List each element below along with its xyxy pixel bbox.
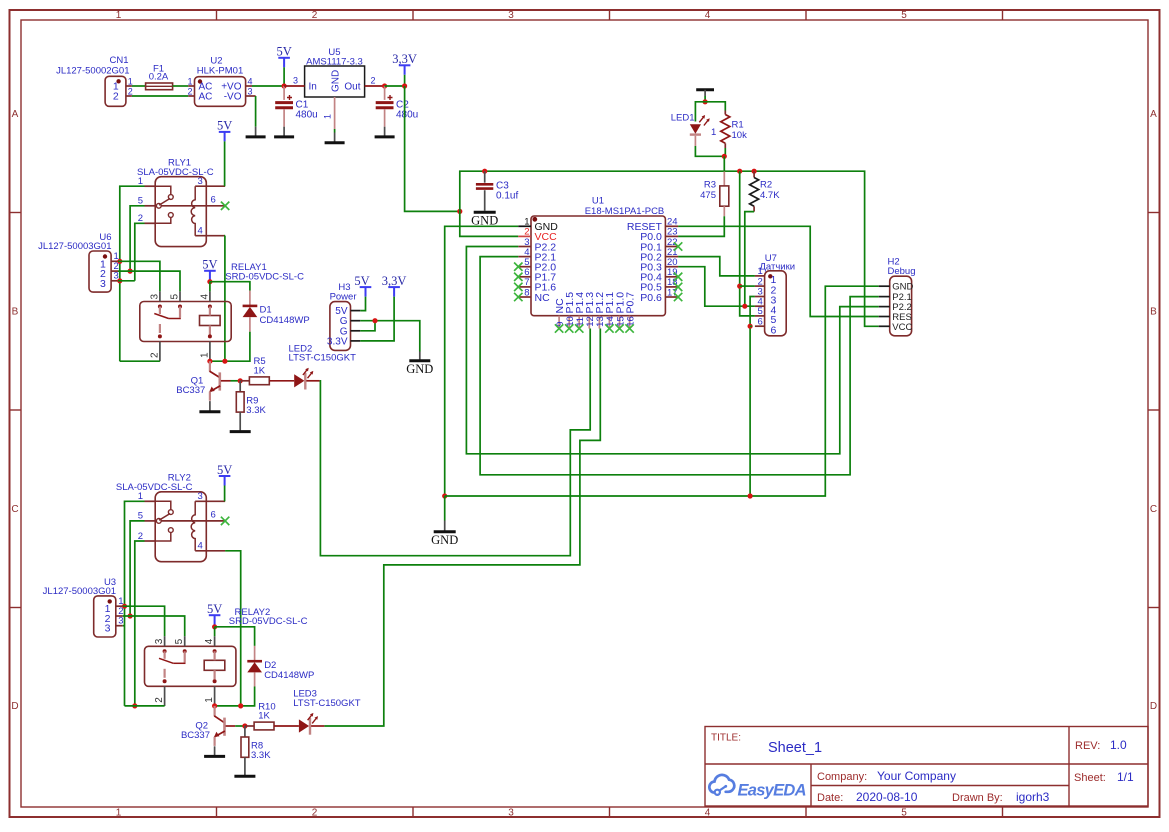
- CN1 pin2 stub: [126, 95, 132, 97]
- svg-text:E18-MS1PA1-PCB: E18-MS1PA1-PCB: [585, 206, 665, 217]
- H2 pin3 stub: [879, 306, 890, 308]
- wire 5V to pin3: [224, 141, 226, 186]
- U2 pin2 stub: [188, 95, 194, 97]
- wire GND to U7 pin6: [749, 326, 751, 496]
- resistor R2 4.7K (zigzag black): [750, 171, 781, 211]
- CN1 pin1 stub: [126, 85, 132, 87]
- capacitor C3 0.1uf: [476, 171, 519, 210]
- ground: [230, 430, 251, 431]
- svg-text:3.3K: 3.3K: [246, 405, 266, 416]
- svg-text:2: 2: [371, 76, 376, 86]
- wire U7.3-U7.6: [750, 297, 755, 327]
- wire 5V stem: [209, 280, 211, 281]
- junction pin4 wire: [238, 703, 243, 708]
- wire 3V3 rail: [460, 171, 879, 326]
- junction coil-/collector: [212, 703, 217, 708]
- wire pin2 net: [135, 223, 145, 280]
- RELAY1 pin1 lead: [209, 342, 211, 362]
- C3 bottom lead: [484, 190, 486, 210]
- pin4 line: [195, 550, 225, 552]
- junction U6.1: [117, 259, 122, 264]
- svg-text:2: 2: [149, 352, 160, 358]
- 5V power flag: [354, 274, 371, 297]
- wire U5 gnd: [334, 129, 336, 133]
- wire CN1-U2 row2: [132, 95, 188, 97]
- svg-text:10k: 10k: [732, 130, 748, 141]
- lead: [249, 317, 251, 332]
- RELAY1 pin2 lead: [159, 342, 161, 362]
- U1 pin6 stub: [518, 276, 531, 278]
- wire pin5 net: [130, 521, 144, 616]
- svg-text:0.1uf: 0.1uf: [496, 191, 518, 202]
- lead: [245, 725, 254, 727]
- svg-text:3: 3: [105, 623, 111, 635]
- wire AC vertical: [125, 501, 145, 706]
- svg-text:igorh3: igorh3: [1016, 790, 1050, 804]
- svg-text:3,3V: 3,3V: [382, 274, 407, 288]
- wire GND to H2: [445, 286, 879, 496]
- C2 top lead: [384, 86, 386, 100]
- U1 pin9 stub: [558, 316, 560, 329]
- fuse F1 0.2A: [146, 64, 173, 90]
- svg-text:Date:: Date:: [817, 792, 843, 804]
- junction 3V3 branch: [457, 209, 462, 214]
- wire H3-3V3: [360, 297, 394, 341]
- wire emitter: [214, 746, 216, 755]
- svg-text:3: 3: [293, 76, 298, 86]
- wire AC vertical: [120, 186, 145, 361]
- relay RLY2 SLA-05VDC-SL-C: [116, 473, 229, 562]
- wire 3V3-U7.5: [740, 171, 755, 316]
- svg-text:6: 6: [771, 324, 777, 336]
- wire 5V stem: [283, 67, 285, 86]
- svg-text:6: 6: [211, 510, 216, 521]
- pin5 stub: [145, 205, 156, 207]
- pin5 stub: [145, 520, 156, 522]
- U1 pin23 stub: [665, 235, 678, 237]
- U3 pin3 stub: [116, 625, 123, 627]
- no-connect X U1 right: [674, 242, 682, 250]
- svg-text:CD4148WP: CD4148WP: [260, 315, 310, 326]
- LED LED1: [671, 113, 717, 147]
- wire relay pin2: [125, 705, 165, 707]
- svg-text:2: 2: [128, 86, 133, 96]
- lead: [240, 380, 249, 382]
- ground: [274, 127, 294, 137]
- wire to pin4: [209, 282, 211, 292]
- cathode lead: [306, 380, 319, 382]
- svg-text:3: 3: [508, 808, 514, 819]
- ground: [471, 210, 498, 227]
- lead: [254, 672, 256, 686]
- no-connect X RLY2.6: [221, 517, 229, 525]
- svg-text:1: 1: [128, 76, 133, 86]
- H3 pin1 stub: [351, 310, 361, 312]
- svg-text:-VO: -VO: [224, 92, 242, 103]
- emitter lead: [214, 737, 216, 746]
- R3 top lead: [723, 172, 725, 186]
- resistor R3 475 (box): [700, 172, 729, 217]
- wire LED1 top: [695, 102, 705, 122]
- svg-text:4: 4: [204, 638, 215, 644]
- ground: [431, 521, 458, 548]
- wire row3: [118, 280, 135, 282]
- wire to diode: [210, 282, 250, 291]
- U2 pin3 stub: [246, 95, 256, 97]
- U1 pin13 stub: [598, 316, 600, 329]
- lead: [244, 757, 246, 775]
- svg-text:8: 8: [524, 287, 529, 298]
- resistor R1 10k (zigzag): [721, 111, 747, 149]
- svg-text:B: B: [12, 307, 19, 318]
- svg-text:CD4148WP: CD4148WP: [264, 670, 314, 681]
- svg-text:Power: Power: [330, 291, 357, 302]
- U5 pin3 stub: [284, 85, 305, 87]
- RELAY2 pin3 lead: [164, 636, 166, 646]
- U1 pin21 stub: [665, 256, 678, 258]
- no-connect X U1 bottom: [625, 324, 633, 332]
- svg-text:3: 3: [149, 294, 160, 300]
- svg-text:2: 2: [113, 90, 119, 102]
- resistor R9 3.3K: [236, 381, 266, 431]
- svg-text:VCC: VCC: [892, 322, 912, 333]
- H3 pin2 stub: [351, 320, 361, 322]
- svg-text:5V: 5V: [202, 258, 217, 272]
- wire C2-3V3: [385, 85, 405, 87]
- svg-text:1: 1: [323, 114, 333, 119]
- svg-text:TITLE:: TITLE:: [711, 733, 741, 744]
- ground flipped above LED1: [696, 90, 714, 96]
- wire to R1: [705, 102, 725, 111]
- svg-text:2: 2: [758, 276, 763, 287]
- svg-text:4: 4: [705, 808, 711, 819]
- U1 pin14 stub: [608, 316, 610, 329]
- svg-text:4.7K: 4.7K: [760, 190, 780, 201]
- ground: [246, 127, 266, 137]
- U6 pin3 stub: [111, 280, 118, 282]
- R2 top lead: [753, 171, 755, 177]
- svg-text:3: 3: [198, 176, 203, 187]
- diode D2 CD4148WP: [247, 646, 314, 687]
- H3 pin3 stub: [351, 330, 361, 332]
- pin4 line: [195, 235, 225, 237]
- U1 pin24 stub: [665, 225, 678, 227]
- junction U7.4/R2: [742, 304, 747, 309]
- U1 pin15 stub: [619, 316, 621, 329]
- wire F1-U2: [173, 85, 189, 87]
- svg-text:Company:: Company:: [817, 771, 867, 783]
- collector lead: [209, 361, 211, 371]
- no-connect X U1 bottom: [605, 324, 613, 332]
- svg-text:5V: 5V: [207, 602, 222, 616]
- relay RELAY1 SRD-05VDC-SL-C: [140, 262, 304, 361]
- U1 pin19 stub: [665, 276, 678, 278]
- junction U3.2: [128, 613, 133, 618]
- junction base/R: [242, 723, 247, 728]
- svg-text:GND: GND: [431, 533, 458, 547]
- svg-text:1: 1: [187, 76, 192, 86]
- junction LED1/R1 top: [703, 99, 708, 104]
- ground: [199, 411, 220, 412]
- wire row3 short: [123, 625, 125, 627]
- H2 pin1 stub: [879, 285, 890, 287]
- wire pin2 net down: [135, 541, 145, 706]
- junction GND/U7: [748, 493, 753, 498]
- wire LED1 bottom: [695, 146, 724, 156]
- svg-text:1.0: 1.0: [1110, 738, 1127, 752]
- svg-text:P0.7: P0.7: [624, 292, 636, 314]
- no-connect X U1 right: [674, 293, 682, 301]
- svg-text:1K: 1K: [258, 711, 270, 722]
- U2 pin4 stub: [246, 85, 252, 87]
- wire base: [231, 380, 241, 382]
- wire H3 G2: [360, 321, 375, 331]
- pin3 line: [195, 500, 225, 502]
- U1 pin12 stub: [588, 316, 590, 329]
- pin6 line: [161, 520, 225, 522]
- wire U7.2 stub link: [740, 285, 755, 287]
- svg-text:5: 5: [138, 511, 143, 522]
- pin1 stub: [145, 185, 156, 187]
- svg-text:4: 4: [199, 294, 210, 300]
- no-connect X U1 bottom: [555, 324, 563, 332]
- svg-text:3: 3: [508, 10, 514, 21]
- svg-text:5V: 5V: [354, 274, 369, 288]
- svg-text:5V: 5V: [217, 463, 232, 477]
- AC-DC module U2 HLK-PM01: [187, 56, 255, 107]
- H3 pin4 stub: [351, 340, 361, 342]
- lead: [249, 291, 251, 306]
- U5 pin2 stub: [365, 85, 385, 87]
- wire H3-5V: [360, 297, 365, 311]
- svg-text:SRD-05VDC-SL-C: SRD-05VDC-SL-C: [229, 616, 308, 627]
- RELAY1 pin4 lead: [209, 291, 211, 301]
- svg-text:0.2A: 0.2A: [149, 71, 169, 82]
- svg-text:1: 1: [116, 808, 122, 819]
- lead: [244, 726, 246, 737]
- wire to R3: [723, 156, 725, 171]
- U6 pin1 stub: [111, 260, 118, 262]
- svg-text:JL127-50003G01: JL127-50003G01: [43, 586, 116, 597]
- U1 pin10 stub: [568, 316, 570, 329]
- svg-text:1: 1: [711, 127, 716, 138]
- title block: [705, 727, 1148, 807]
- pin2 stub: [145, 222, 156, 224]
- no-connect X U1 left: [514, 263, 522, 271]
- junction 5V/C1/U5-In: [282, 83, 287, 88]
- U7 pin2 stub: [755, 285, 765, 287]
- svg-text:HLK-PM01: HLK-PM01: [197, 66, 243, 77]
- wire pin4 down: [224, 236, 226, 362]
- wire P2.2 net: [466, 247, 878, 454]
- RELAY2 pin4 lead: [214, 636, 216, 646]
- wire row1: [123, 606, 165, 636]
- svg-text:2: 2: [312, 10, 318, 21]
- wire P0.2-U7.1: [678, 257, 755, 276]
- svg-text:GND: GND: [406, 362, 433, 376]
- svg-text:4: 4: [705, 10, 711, 21]
- R2 bottom lead: [753, 206, 755, 211]
- svg-text:D: D: [11, 701, 18, 712]
- junction U3.1: [122, 604, 127, 609]
- svg-text:Debug: Debug: [888, 266, 916, 277]
- RELAY1 pin3 lead: [159, 291, 161, 301]
- svg-text:1: 1: [204, 697, 215, 703]
- ground: [375, 127, 395, 137]
- U1 pin20 stub: [665, 266, 678, 268]
- relay RELAY2 SRD-05VDC-SL-C: [145, 607, 308, 706]
- svg-text:R1: R1: [732, 120, 744, 131]
- svg-text:SRD-05VDC-SL-C: SRD-05VDC-SL-C: [225, 271, 304, 282]
- wire CN1-F1: [132, 85, 146, 87]
- 5V power flag: [217, 463, 232, 486]
- wire to pin4: [214, 627, 216, 636]
- svg-text:5V: 5V: [217, 119, 232, 133]
- U5 pin1 lead: [334, 97, 336, 129]
- wire diode down: [210, 332, 250, 361]
- svg-text:In: In: [309, 82, 317, 93]
- svg-text:5: 5: [174, 638, 185, 644]
- lead: [274, 725, 299, 727]
- H2 pin5 stub: [879, 325, 890, 327]
- svg-text:475: 475: [700, 190, 716, 201]
- wire chain B: [324, 329, 600, 727]
- svg-text:Out: Out: [344, 82, 360, 93]
- svg-text:3: 3: [198, 491, 203, 502]
- ground: [234, 775, 255, 776]
- R1 lead: [724, 111, 726, 115]
- lead: [254, 646, 256, 661]
- svg-text:GND: GND: [892, 282, 913, 293]
- svg-text:Датчики: Датчики: [760, 262, 796, 273]
- U1 pin11 stub: [578, 316, 580, 329]
- svg-text:R2: R2: [760, 180, 772, 191]
- wire U7.6 link: [750, 325, 752, 327]
- svg-text:EasyEDA: EasyEDA: [738, 782, 807, 800]
- svg-text:1K: 1K: [254, 366, 266, 377]
- svg-text:5V: 5V: [276, 45, 291, 59]
- junction base/R: [238, 378, 243, 383]
- wire 3V3 vertical: [405, 86, 460, 211]
- svg-text:SLA-05VDC-SL-C: SLA-05VDC-SL-C: [116, 482, 193, 493]
- RELAY2 pin1 lead: [214, 686, 216, 706]
- junction rail/R2: [752, 169, 757, 174]
- U7 pin6 stub: [755, 325, 765, 327]
- wire R2 down: [745, 212, 754, 307]
- svg-text:GND: GND: [331, 70, 342, 92]
- H2 pin4 stub: [879, 316, 890, 318]
- regulator U5 AMS1117-3.3: [284, 47, 385, 129]
- junction 5V/RELAY1.4: [207, 279, 212, 284]
- wire 5V to pin3: [224, 486, 226, 502]
- junction U6.3: [117, 278, 122, 283]
- LED LED3 LTST-C150GKT: [293, 689, 361, 735]
- svg-text:NC: NC: [535, 292, 551, 304]
- RELAY2 pin5 lead: [184, 636, 186, 646]
- svg-text:3: 3: [118, 616, 123, 627]
- U1 pin7 stub: [518, 286, 531, 288]
- junction 5V/RELAY2.4: [212, 624, 217, 629]
- no-connect X U1 left: [514, 293, 522, 301]
- lead: [239, 381, 241, 392]
- U1 pin16 stub: [629, 316, 631, 329]
- svg-text:2: 2: [154, 697, 165, 703]
- LED1 cathode lead: [694, 136, 696, 146]
- svg-text:3.3V: 3.3V: [327, 336, 348, 347]
- U7 pin5 stub: [755, 315, 765, 317]
- wire diode down: [215, 687, 255, 706]
- U3 pin2 stub: [116, 615, 123, 617]
- C1 bottom lead: [283, 109, 285, 126]
- junction U7.2: [737, 284, 742, 289]
- U7 pin1 stub: [755, 275, 765, 277]
- U1 pin5 stub: [518, 266, 531, 268]
- U1 pin8 stub: [518, 296, 531, 298]
- svg-text:A: A: [1150, 109, 1157, 120]
- svg-text:JL127-50003G01: JL127-50003G01: [38, 241, 111, 252]
- junction coil-/collector: [207, 359, 212, 364]
- lead: [269, 380, 294, 382]
- svg-text:2: 2: [187, 86, 192, 96]
- resistor R8 3.3K: [241, 726, 271, 775]
- pin2 stub: [145, 540, 156, 542]
- wire P2.1 net: [480, 257, 879, 475]
- svg-text:A: A: [12, 109, 19, 120]
- cathode lead: [311, 725, 324, 727]
- wire RESET: [678, 226, 879, 316]
- no-connect X U1 left: [514, 273, 522, 281]
- base lead: [221, 380, 231, 382]
- svg-text:1: 1: [199, 352, 210, 358]
- svg-text:Drawn By:: Drawn By:: [952, 792, 1003, 804]
- svg-text:P0.6: P0.6: [640, 292, 662, 304]
- no-connect X U1 left: [514, 283, 522, 291]
- connector H3 Power: [327, 282, 360, 350]
- svg-text:D: D: [1150, 701, 1157, 712]
- wire 3V3 stem: [404, 75, 406, 86]
- svg-text:480u: 480u: [296, 110, 318, 121]
- svg-text:C: C: [11, 504, 18, 515]
- svg-text:2: 2: [312, 808, 318, 819]
- svg-text:3,3V: 3,3V: [392, 52, 417, 66]
- svg-text:R3: R3: [704, 180, 716, 191]
- svg-text:3: 3: [100, 278, 106, 290]
- svg-text:Sheet_1: Sheet_1: [768, 740, 822, 756]
- svg-text:AMS1117-3.3: AMS1117-3.3: [306, 57, 363, 68]
- svg-text:6: 6: [758, 316, 763, 327]
- wire pin5 net: [130, 206, 144, 271]
- base lead: [226, 725, 236, 727]
- svg-text:REV:: REV:: [1075, 740, 1100, 752]
- U1 pin4 stub: [518, 256, 531, 258]
- collector lead: [214, 706, 216, 716]
- U7 pin4 stub: [755, 305, 765, 307]
- U1 pin1 stub: [518, 225, 531, 227]
- transistor Q1 BC337: [176, 361, 220, 401]
- svg-text:1/1: 1/1: [1117, 770, 1134, 784]
- svg-text:Your Company: Your Company: [877, 769, 956, 783]
- wire H3 G1: [360, 321, 420, 352]
- svg-text:3: 3: [248, 86, 253, 96]
- C3 top lead: [484, 171, 486, 183]
- svg-text:4: 4: [248, 76, 253, 86]
- wire row2: [118, 271, 180, 291]
- 5V power flag: [382, 274, 407, 297]
- wire 5V stem: [214, 625, 216, 627]
- svg-text:5: 5: [170, 294, 181, 300]
- svg-text:3.3K: 3.3K: [251, 750, 271, 761]
- wire -VO down: [255, 96, 257, 127]
